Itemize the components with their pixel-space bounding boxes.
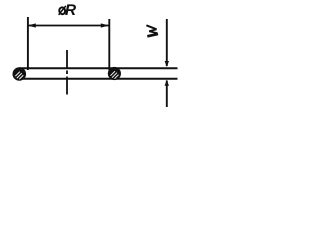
centerline: [66, 50, 68, 95]
arrow up at bottom of W: [165, 80, 169, 86]
right cross-section circle: [108, 67, 121, 80]
arrow down at top of W: [165, 61, 169, 67]
left cross-section circle: [12, 67, 26, 81]
arrow left of ØR dimension: [28, 23, 36, 27]
extension line left (inner edge of left section): [27, 17, 29, 70]
dimension line W upper segment: [166, 19, 168, 66]
O-ring top edge: [19, 67, 178, 69]
dimension line ØR: [28, 25, 109, 27]
arrow right of ØR dimension: [101, 23, 109, 27]
label ØR: diameter symbol: [59, 6, 66, 15]
label ØR: letter R: [65, 4, 76, 15]
O-ring bottom edge: [19, 78, 178, 80]
dimension line W lower segment: [166, 81, 168, 108]
extension line right (inner edge of right section): [108, 19, 110, 70]
label W (rotated): [146, 25, 158, 36]
